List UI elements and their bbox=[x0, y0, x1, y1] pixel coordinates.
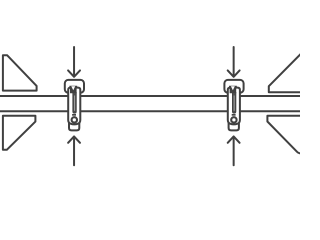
band top line bbox=[0, 95, 300, 97]
right clamp assembly bbox=[224, 47, 243, 165]
triangle bottom-right bbox=[267, 116, 301, 154]
triangle top-left bbox=[3, 55, 37, 90]
band bottom line bbox=[0, 110, 300, 112]
triangle bottom-left bbox=[3, 116, 36, 150]
left clamp assembly bbox=[65, 47, 84, 165]
triangle top-right bbox=[269, 53, 302, 92]
